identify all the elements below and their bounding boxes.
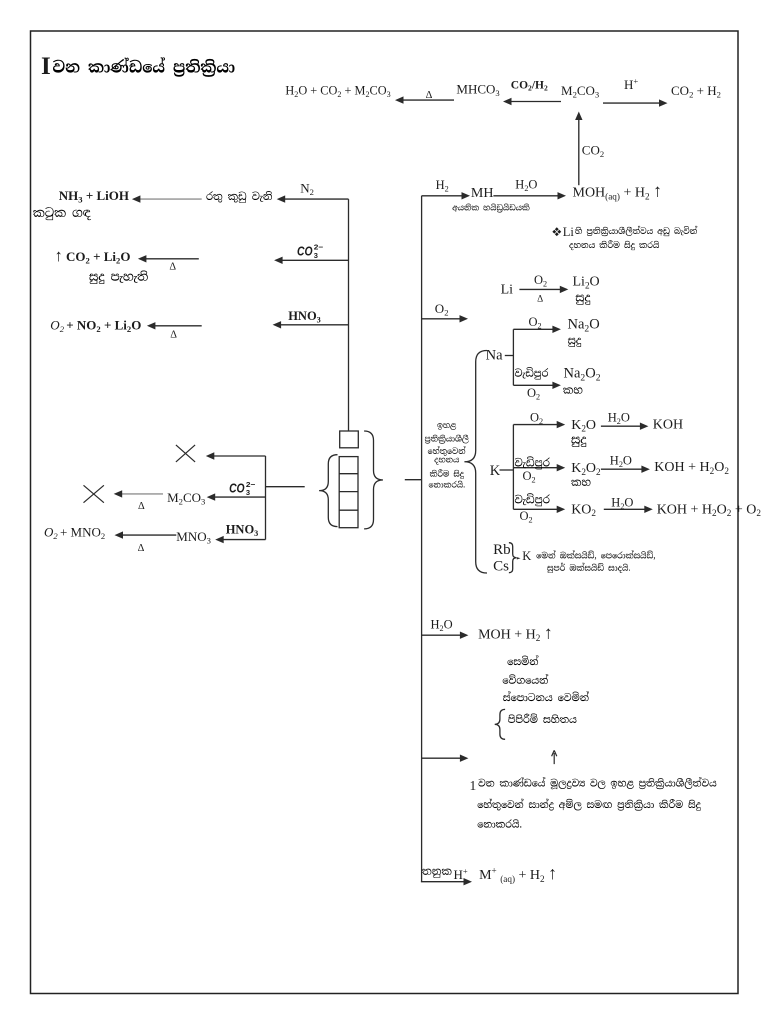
svg-text:MOH + H2​ ↑: MOH + H2​ ↑ [478, 622, 553, 643]
svg-text:O2​: O2​ [530, 411, 543, 427]
svg-text:+ MNO2​: + MNO2​ [57, 525, 105, 542]
reactivity text line 1 [437, 423, 456, 430]
svg-text:M+​ (aq)​ + H2​ ↑: M+​ (aq)​ + H2​ ↑ [479, 863, 557, 884]
svg-text:CO2​ + H2​: CO2​ + H2​ [671, 83, 721, 100]
arrow HNO3 to left [279, 324, 349, 326]
RbCs note line1 [537, 551, 656, 560]
K branch vertical [512, 425, 514, 510]
svg-text:H2​O: H2​O [431, 618, 453, 634]
arrow MH to MOH [493, 195, 560, 197]
katuka gandha [33, 207, 91, 220]
svg-text:2−: 2− [246, 480, 256, 489]
para line2 [478, 799, 701, 811]
svg-text:Li: Li [501, 282, 514, 297]
svg-text:O2​: O2​ [520, 509, 533, 525]
svg-text:H+​: H+​ [624, 76, 638, 92]
svg-text:I: I [41, 53, 51, 80]
arrow K to KO2 [513, 508, 559, 510]
box divider [339, 473, 358, 475]
svg-text:O2​: O2​ [435, 301, 449, 318]
arrow backbone to MH [422, 195, 465, 197]
rathu kudu wani [206, 191, 272, 203]
arrow CO3 to left [280, 259, 348, 261]
svg-text:Rb: Rb [493, 542, 511, 558]
arrow Na to Na2O [513, 328, 555, 330]
RbCs note line2 [547, 563, 630, 573]
svg-text:CO2​/H2​: CO2​/H2​ [511, 79, 548, 92]
arrow rathu kudu to NH3 [138, 198, 202, 200]
svg-text:↑ CO2​ + Li2​O: ↑ CO2​ + Li2​O [55, 246, 131, 266]
svg-text:O2​: O2​ [523, 469, 536, 485]
svg-text:HNO3​: HNO3​ [288, 309, 321, 325]
para line3 [478, 819, 522, 827]
big brace Na K Rb Cs [464, 351, 487, 574]
svg-text:Na: Na [486, 348, 503, 364]
mid-left vertical [265, 456, 267, 540]
box divider [339, 491, 358, 493]
svg-text:K: K [522, 549, 531, 563]
svg-text:Δ: Δ [138, 501, 145, 512]
reactivity text line 3 [428, 446, 466, 456]
pipirim sahithaya [508, 714, 576, 723]
svg-text:KOH + H2​O2​ + O2​: KOH + H2​O2​ + O2​ [657, 502, 762, 518]
svg-text:3: 3 [246, 488, 250, 497]
wegayen [503, 674, 549, 684]
svg-text:Na2​O2​: Na2​O2​ [564, 366, 601, 384]
arrow Li to Li2O [519, 288, 562, 290]
boxes right brace [364, 431, 383, 529]
svg-text:Li2​O: Li2​O [573, 275, 600, 291]
svg-text:O2​: O2​ [527, 386, 540, 402]
svg-text:3: 3 [314, 251, 318, 260]
svg-text:MH: MH [471, 186, 494, 201]
right backbone vertical [421, 196, 423, 882]
svg-text:KOH + H2​O2​: KOH + H2​O2​ [654, 460, 729, 476]
thanuka [422, 869, 451, 878]
svg-text:K2​O: K2​O [571, 418, 596, 434]
Na dash [505, 355, 514, 357]
arrow CO2 up to M2CO3 [578, 118, 580, 186]
connector left dash [266, 486, 305, 488]
svg-text:H2​O: H2​O [515, 178, 537, 194]
arrow backbone H2O branch [422, 634, 463, 636]
svg-text:+ NO2​ + Li2​O: + NO2​ + Li2​O [63, 318, 141, 335]
svg-text:H2​O: H2​O [608, 411, 630, 427]
arrow K2O to KOH [601, 425, 643, 427]
svg-text:CO2​: CO2​ [582, 143, 604, 160]
arrow HNO3 to MNO3 [221, 539, 265, 541]
arrow Na to Na2O2 [513, 384, 555, 386]
sudu Na2O [568, 338, 581, 347]
Na branch vertical [512, 329, 514, 385]
svg-text:KOH: KOH [653, 418, 683, 433]
sudu K2O [571, 437, 586, 447]
x mark 2 [84, 485, 104, 502]
svg-text:1: 1 [470, 778, 477, 793]
box divider [339, 509, 358, 511]
svg-text:Li: Li [563, 225, 575, 239]
reactivity text line 6 [429, 481, 465, 488]
arrow delta to O2+NO2 [153, 325, 202, 327]
brace pipirim [495, 709, 505, 739]
element box H [340, 431, 359, 448]
up arrow glyph [552, 750, 557, 764]
svg-text:CO: CO [297, 245, 313, 259]
arrow M2CO3 to x mark 2 [120, 493, 163, 495]
arrow backbone dilute branch [422, 757, 463, 759]
svg-text:O2​: O2​ [529, 315, 542, 331]
title sinhala [53, 57, 235, 77]
svg-text:N2​: N2​ [300, 181, 314, 198]
Rb Cs brace [509, 543, 517, 573]
ayanika hydridayaki [452, 204, 529, 213]
x mark 1 [176, 445, 195, 462]
reactivity text line 2 [425, 435, 469, 444]
arrow delta to CO2+Li2O [144, 258, 199, 260]
kaha Na2O2 [563, 387, 582, 393]
svg-text:H2​: H2​ [436, 178, 449, 194]
boxes left brace [319, 455, 337, 527]
kaha K2O2 [571, 480, 590, 486]
arrow N2 to rathu kudu [283, 198, 349, 200]
reactivity text line 5 [430, 469, 464, 479]
left column vertical [348, 199, 350, 431]
svg-text:MNO3​: MNO3​ [176, 529, 211, 546]
semin [508, 656, 539, 666]
wadipura Na [515, 367, 548, 379]
note line2 sinhala [569, 240, 659, 250]
arrow M2CO3 to CO2+H2 [603, 102, 662, 104]
sudu Li2O [576, 295, 591, 305]
svg-text:HNO3​: HNO3​ [226, 523, 259, 539]
svg-text:2−: 2− [314, 243, 324, 252]
arrow MHCO3 to products [401, 99, 454, 101]
arrow K2O2 to KOH+H2O2 [601, 468, 644, 470]
arrow backbone O2 branch [422, 318, 463, 320]
arrow delta to O2+MNO2 [121, 534, 177, 536]
svg-text:H2​O: H2​O [610, 454, 632, 470]
svg-text:H2​O + CO2​ + M2​CO3​: H2​O + CO2​ + M2​CO3​ [285, 83, 390, 99]
connector right dash [405, 479, 422, 481]
arrow K to K2O [513, 424, 559, 426]
arrow to x mark 1 [212, 455, 266, 457]
svg-text:Na2​O: Na2​O [568, 317, 600, 335]
svg-text:K2​O2​: K2​O2​ [571, 461, 601, 477]
svg-text:KO2​: KO2​ [571, 502, 596, 518]
svg-text:Δ: Δ [426, 90, 433, 101]
svg-text:Δ: Δ [169, 261, 176, 272]
svg-text:MHCO3​: MHCO3​ [456, 82, 499, 99]
svg-text:Δ: Δ [537, 294, 543, 304]
reactivity text line 4 [434, 458, 458, 465]
para line1 [479, 777, 717, 789]
svg-text:MOH(aq)​ + H2​ ↑: MOH(aq)​ + H2​ ↑ [573, 181, 663, 202]
svg-text:Δ: Δ [170, 330, 177, 341]
svg-text:NH3​ + LiOH: NH3​ + LiOH [59, 188, 129, 205]
arrow M2CO3 to MHCO3 [509, 101, 561, 103]
svg-text:M2​CO3​: M2​CO3​ [561, 83, 599, 100]
svg-text:M2​CO3​: M2​CO3​ [167, 490, 205, 507]
svg-text:Cs: Cs [493, 559, 509, 575]
arrow KO2 to KOH+H2O2+O2 [604, 508, 647, 510]
wadipura K mid [515, 456, 550, 469]
svg-text:CO: CO [229, 482, 245, 496]
element boxes Li Na K Rb [339, 457, 358, 528]
sudu pahathi [89, 271, 148, 284]
diamond note marker [552, 227, 561, 236]
note line1 sinhala [575, 226, 697, 236]
spotanaya wemin [503, 692, 589, 702]
wadipura K bottom [515, 493, 550, 506]
arrow CO3 to M2CO3 [213, 496, 266, 498]
svg-text:O2​: O2​ [534, 273, 547, 289]
svg-text:K: K [490, 463, 501, 479]
arrow thanuka H+ [421, 881, 466, 883]
RbCs brace tick [517, 557, 521, 559]
svg-text:Δ: Δ [138, 543, 145, 554]
K dash [500, 469, 514, 471]
arrow K to K2O2 [513, 467, 559, 469]
